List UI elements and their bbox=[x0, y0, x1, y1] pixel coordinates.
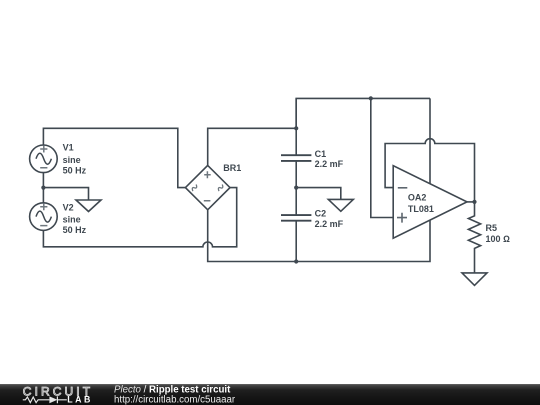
wire cap column upper bbox=[295, 98, 297, 154]
svg-text:2.2 mF: 2.2 mF bbox=[315, 219, 344, 229]
wire V2 minus bottom rail to BR1 AC right (hop over BR1 minus wire) bbox=[43, 188, 236, 247]
node junction V1-V2 bbox=[41, 186, 45, 190]
label V1 value bbox=[63, 143, 87, 176]
svg-text:LAB: LAB bbox=[67, 394, 93, 404]
wire cap column lower bbox=[295, 221, 297, 261]
wire V1 minus to V2 plus bbox=[42, 173, 44, 203]
CircuitLab logo wordmark bbox=[23, 385, 93, 405]
op-amp OA2 bbox=[393, 166, 467, 239]
svg-text:V1: V1 bbox=[63, 143, 74, 153]
wire BR1 plus up to C1 column bbox=[208, 128, 297, 165]
label V2 value bbox=[63, 203, 87, 236]
capacitor C2 bbox=[281, 215, 311, 221]
node junction top rail / op-amp plus bbox=[369, 96, 373, 100]
svg-text:2.2 mF: 2.2 mF bbox=[315, 159, 344, 169]
ground G2 bbox=[328, 199, 353, 211]
node junction op-amp output bbox=[472, 200, 476, 204]
svg-text:C1: C1 bbox=[315, 149, 327, 159]
wire C1 column top and top rail bbox=[296, 98, 430, 128]
wire right vertical behind op-amp, bottom rail, BR1 minus bbox=[208, 98, 430, 261]
svg-text:sine: sine bbox=[63, 214, 81, 224]
wire V1 top to BR1 AC left bbox=[43, 128, 185, 187]
label C1 value bbox=[315, 149, 344, 169]
svg-text:http://circuitlab.com/c5uaaar: http://circuitlab.com/c5uaaar bbox=[114, 394, 236, 405]
svg-text:50 Hz: 50 Hz bbox=[63, 165, 87, 175]
label C2 value bbox=[315, 209, 344, 230]
svg-text:C2: C2 bbox=[315, 209, 327, 219]
svg-text:sine: sine bbox=[63, 155, 81, 165]
bridge rectifier BR1 bbox=[185, 165, 230, 209]
wire top rail node down to op-amp plus input bbox=[371, 98, 393, 217]
voltage source V2 bbox=[30, 203, 58, 231]
node junction BR1+ / C1 bbox=[294, 126, 298, 130]
ground G3 bbox=[462, 273, 487, 286]
wire node V1V2 to ground G1 bbox=[43, 188, 88, 200]
wire op-amp output to node bbox=[467, 201, 475, 203]
capacitor C1 bbox=[281, 155, 311, 161]
label R5 value bbox=[486, 223, 511, 244]
footer bar bbox=[0, 384, 540, 405]
label OA2 TL081 bbox=[408, 192, 434, 214]
wire cap node to ground G2 bbox=[296, 188, 341, 200]
voltage source V1 bbox=[30, 145, 58, 173]
svg-text:BR1: BR1 bbox=[223, 163, 241, 173]
node junction C2 bottom rail bbox=[294, 259, 298, 263]
ground G1 bbox=[76, 200, 101, 212]
node junction C1/C2 ground bbox=[294, 186, 298, 190]
svg-text:100 Ω: 100 Ω bbox=[486, 234, 511, 244]
svg-text:OA2: OA2 bbox=[408, 192, 427, 202]
svg-text:50 Hz: 50 Hz bbox=[63, 225, 87, 235]
svg-text:V2: V2 bbox=[63, 203, 74, 213]
svg-text:TL081: TL081 bbox=[408, 204, 434, 214]
svg-text:R5: R5 bbox=[486, 223, 498, 233]
resistor R5 bbox=[468, 202, 480, 273]
wire cap column middle bbox=[295, 162, 297, 215]
wire feedback loop output to minus input (hop over vertical) bbox=[385, 139, 474, 202]
